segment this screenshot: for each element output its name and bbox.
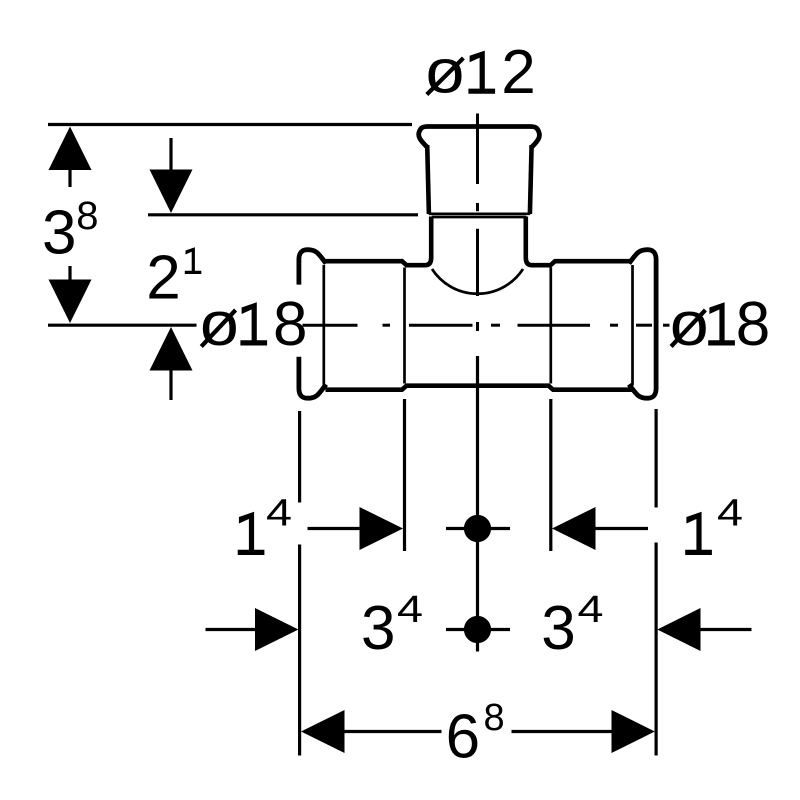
svg-text:8: 8 bbox=[484, 697, 505, 739]
left bead (press socket lip) bbox=[299, 250, 326, 399]
svg-text:3: 3 bbox=[541, 594, 575, 663]
extension line left socket end bbox=[403, 399, 406, 551]
upper-right body outline with branch flare bbox=[526, 217, 632, 266]
label ø18 left bbox=[200, 290, 308, 359]
upper-left body outline with branch flare bbox=[326, 217, 432, 266]
extension line left face bbox=[298, 411, 301, 756]
tee body horizontal centerline (dash-dot) bbox=[303, 324, 670, 327]
center dot row1 bbox=[446, 515, 510, 542]
label 1 sup 4 left bbox=[238, 493, 292, 556]
dim 6/8 right arrow bbox=[512, 710, 655, 753]
dim 3/4 right arrow bbox=[657, 608, 751, 651]
svg-text:6: 6 bbox=[446, 703, 480, 772]
label 1 sup 4 right bbox=[685, 493, 743, 556]
branch socket wall right bbox=[530, 145, 532, 214]
svg-text:2: 2 bbox=[146, 244, 180, 313]
extension line centerline level (left solid) bbox=[48, 324, 197, 327]
right socket mouth line bbox=[631, 265, 634, 386]
dim 3/8 arrow down bbox=[49, 266, 92, 323]
svg-text:4: 4 bbox=[266, 493, 292, 535]
dim 3/4 left arrow bbox=[206, 608, 299, 651]
svg-text:4: 4 bbox=[397, 589, 423, 631]
dim 1/4 right arrow bbox=[552, 507, 648, 550]
branch bead (top flared lip) bbox=[419, 127, 540, 148]
label ø12 (branch diameter) bbox=[426, 38, 536, 107]
dim 1/4 left arrow bbox=[308, 507, 404, 550]
svg-text:3: 3 bbox=[361, 594, 395, 663]
extension line right face bbox=[654, 409, 657, 756]
lower body outline bbox=[326, 386, 632, 390]
svg-text:8: 8 bbox=[76, 194, 98, 238]
dim 3/8 arrow up bbox=[49, 127, 92, 188]
label 3 sup 4 right bbox=[541, 589, 603, 663]
label 6 sup 8 bbox=[446, 697, 505, 772]
svg-text:o: o bbox=[426, 38, 465, 107]
label 2 sup 1 bbox=[146, 244, 201, 313]
label 3 sup 4 left bbox=[361, 589, 423, 663]
right bead (press socket lip) bbox=[629, 250, 656, 399]
extension line top (bead top level) bbox=[48, 123, 412, 126]
svg-text:8: 8 bbox=[736, 290, 770, 359]
left socket mouth line bbox=[322, 265, 325, 386]
svg-text:4: 4 bbox=[717, 493, 743, 535]
label 3 sup 8 bbox=[42, 194, 99, 268]
svg-text:2: 2 bbox=[501, 38, 535, 107]
dim 2/1 arrow up bbox=[150, 327, 193, 400]
svg-text:4: 4 bbox=[578, 589, 604, 631]
dim 2/1 arrow down bbox=[150, 138, 193, 213]
label ø18 right bbox=[670, 290, 770, 359]
extension line center bbox=[476, 356, 479, 652]
right socket end line bbox=[549, 268, 552, 384]
left socket end line bbox=[403, 268, 406, 384]
crotch arc inside tee bbox=[432, 269, 523, 294]
branch socket end lines bbox=[429, 212, 531, 215]
extension line right socket end bbox=[549, 399, 552, 551]
svg-text:8: 8 bbox=[273, 290, 307, 359]
dim 6/8 left arrow bbox=[301, 710, 442, 753]
branch vertical centerline (dash-dot) bbox=[476, 114, 479, 332]
extension line insertion depth level bbox=[148, 213, 418, 216]
svg-text:3: 3 bbox=[42, 199, 76, 268]
branch socket wall left bbox=[427, 145, 429, 214]
center dot row2 bbox=[446, 616, 510, 643]
